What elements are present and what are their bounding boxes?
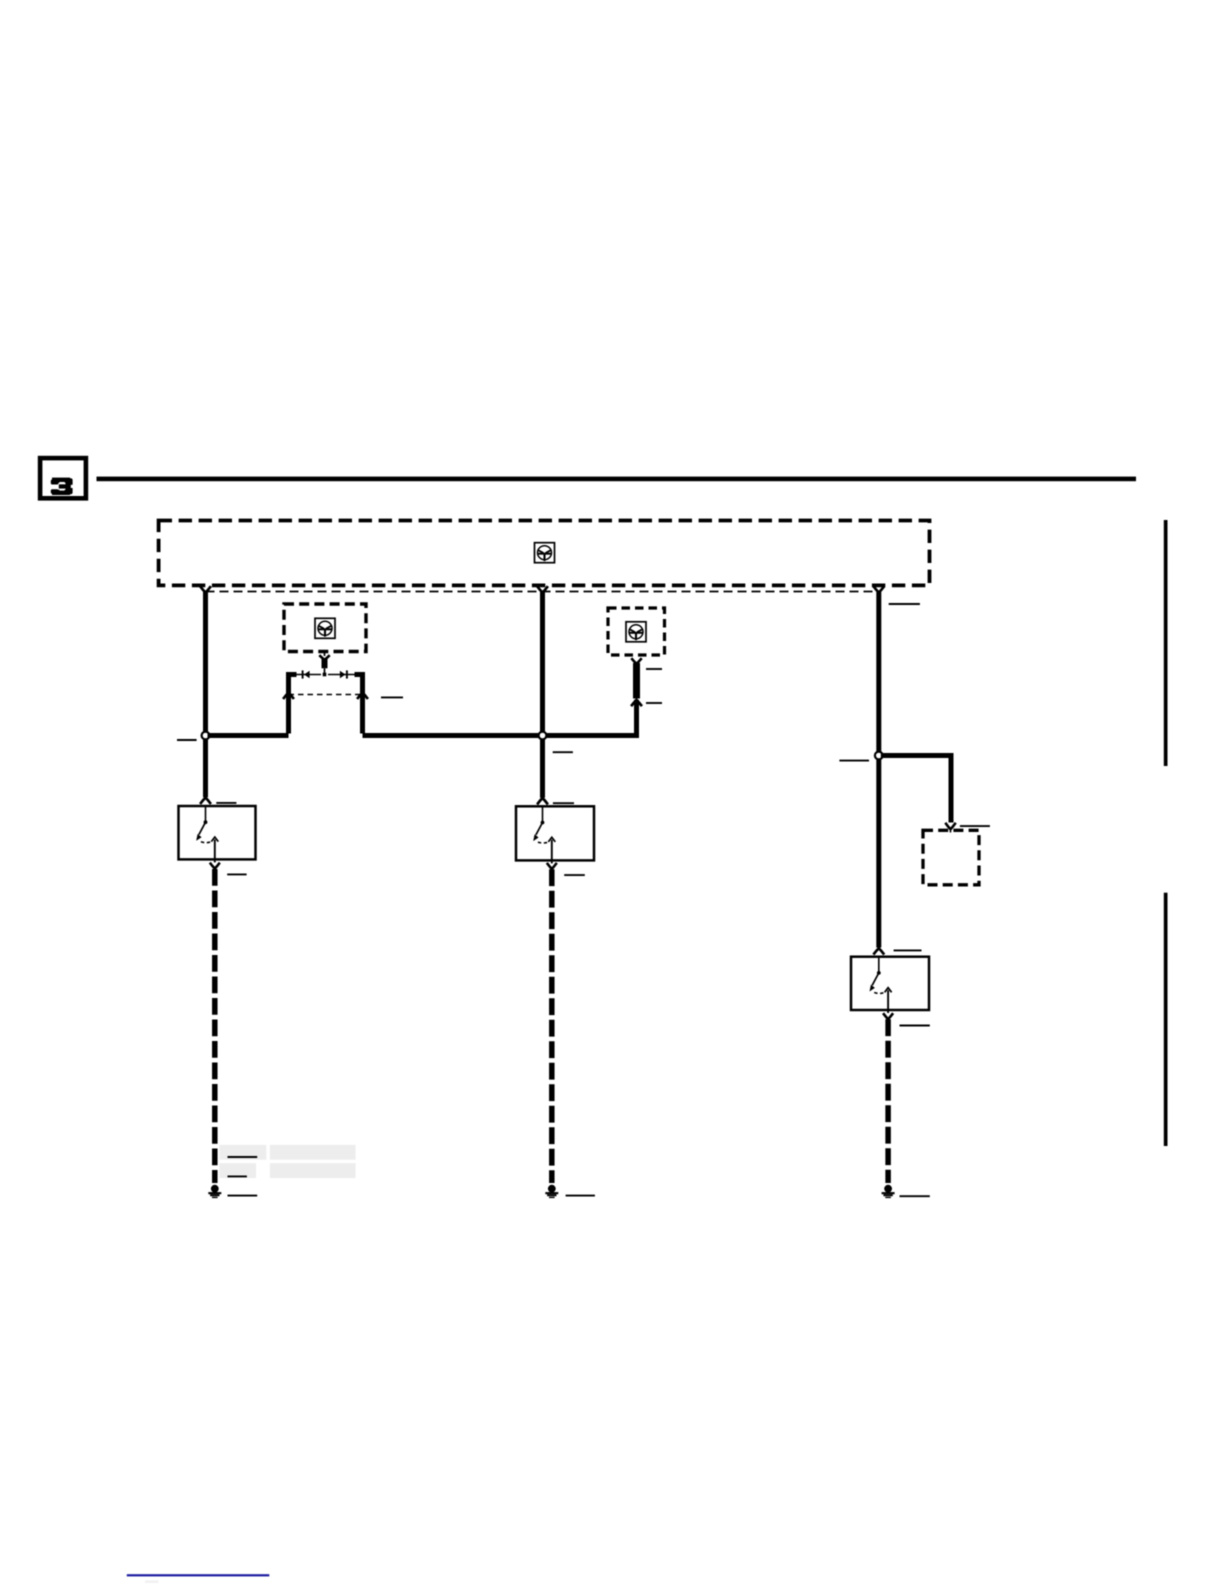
switch SW1 internals [196, 806, 218, 862]
bridge bus line left [297, 674, 322, 676]
connector rail X1 (dashed) [206, 591, 879, 593]
wire U3 to junction bus [634, 700, 637, 736]
switch box SW1 [179, 806, 256, 859]
junction bus J1-J2 [363, 733, 638, 738]
steering wheel symbol in U2 [315, 618, 335, 638]
connector arrow bridge left [283, 693, 294, 699]
pin arrow below SW3 [883, 1013, 893, 1019]
label left of J3 [839, 760, 869, 762]
bridge left corner [289, 675, 297, 700]
wire W3 lower (dashed) [885, 1019, 891, 1183]
junction node J1 [202, 732, 210, 740]
ground G3 [882, 1185, 895, 1198]
label right of G2 [566, 1195, 595, 1197]
switch SW2 internals [533, 806, 555, 863]
switch box SW3 [851, 957, 929, 1010]
connector arrow below U3 [631, 700, 642, 706]
pin arrow below SW2 [547, 863, 557, 869]
component box U3 (dashed) [608, 608, 665, 655]
connector arrow above switch SW1 [200, 798, 211, 804]
label below J2 [553, 751, 573, 753]
switch SW3 internals [870, 957, 892, 1013]
label left of J1 [177, 739, 197, 741]
pin arrow wire 1 [200, 586, 211, 592]
steering wheel symbol in U1 [535, 543, 555, 563]
footer hyperlink rule (blue) [127, 1574, 269, 1576]
label right of SW3 bottom [900, 1025, 930, 1027]
label right of U3 connector [646, 702, 662, 704]
label in row 2 [228, 1175, 247, 1177]
bridge right riser [360, 698, 365, 734]
label right of SW1 bottom [227, 873, 246, 875]
junction node J3 [875, 752, 883, 760]
label right of SW2 top [553, 802, 574, 804]
U2 pin stub [324, 652, 326, 657]
bridge bus line right [328, 674, 355, 676]
steering wheel symbol in U3 [626, 622, 646, 642]
label right of SW3 top [894, 949, 922, 951]
U2 stub thick segment [322, 659, 328, 669]
pin arrow below SW1 [210, 863, 220, 869]
highlight row 1 [219, 1145, 355, 1160]
label right of SW1 top [216, 802, 236, 804]
inline pin symbol right [340, 670, 347, 678]
pin arrow U2 [319, 655, 329, 660]
sheet number box 3 [40, 458, 86, 498]
wire W1 vertical [203, 592, 208, 797]
component box U2 (dashed) [284, 604, 366, 652]
right margin bar lower [1164, 893, 1168, 1146]
label right of X2 [381, 696, 403, 698]
wire W1 lower (dashed) [212, 869, 218, 1183]
label right of S4 arrow [960, 825, 990, 827]
connector arrow above switch SW3 [873, 948, 884, 954]
pin arrow wire 2 [537, 586, 548, 592]
label in row 1 [228, 1156, 258, 1158]
wire J1 to bridge riser [208, 733, 289, 738]
bridge right corner [355, 675, 363, 700]
junction node J2 [539, 732, 547, 740]
right margin bar upper [1164, 520, 1168, 766]
U3 stub thick segment [633, 663, 640, 699]
component box U1 (dashed) [159, 521, 930, 586]
pin arrow into S4 [945, 823, 955, 833]
wire W2 lower (dashed) [549, 869, 555, 1183]
label right of U3 stub [646, 668, 662, 670]
ground G2 [545, 1185, 558, 1198]
inline pin symbol left [303, 670, 310, 678]
bridge junction dot [323, 673, 327, 677]
label right of SW2 bottom [564, 874, 585, 876]
pin arrow wire 3 [873, 586, 884, 592]
switch box SW2 [516, 806, 594, 860]
label right of G3 [900, 1195, 930, 1197]
component box S4 (dashed, empty) [923, 830, 979, 885]
wire W2 vertical [540, 592, 545, 798]
pin arrow U3 [631, 658, 641, 664]
header rule [97, 477, 1137, 482]
connector arrow above switch SW2 [537, 798, 548, 804]
connector rail X2 (dashed) [289, 694, 363, 696]
connector arrow bridge right [357, 693, 368, 699]
pin label wire 3 [889, 603, 920, 605]
wire W3 vertical [876, 592, 881, 948]
bridge left riser [286, 698, 291, 734]
U2 stub thin segment [324, 668, 326, 674]
ground G1 [208, 1185, 221, 1198]
footer faint mark [145, 1580, 159, 1583]
highlight row 2 [219, 1163, 355, 1178]
branch J3 to S4 [881, 756, 951, 823]
label right of G1 [228, 1195, 258, 1197]
